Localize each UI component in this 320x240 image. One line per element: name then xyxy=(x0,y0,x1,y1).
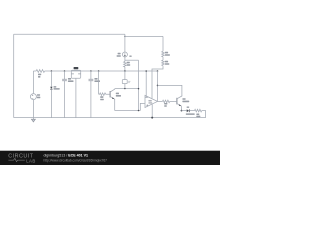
wire Q1 emitter down xyxy=(114,99,116,110)
wire divider jog to op-amp V+ pin xyxy=(152,67,163,98)
wire jog to op-amp non-inverting input (pin +) xyxy=(140,103,145,110)
transistor Q3 xyxy=(175,95,189,106)
svg-text:digimburg513 / ECE 401 V1: digimburg513 / ECE 401 V1 xyxy=(44,153,89,157)
resistor R3 xyxy=(124,57,131,71)
capacitor C2 xyxy=(89,71,101,118)
wire top corner down xyxy=(124,34,126,52)
voltage source V1 xyxy=(30,71,40,118)
diode D1 xyxy=(50,71,60,118)
current source I1 xyxy=(117,52,132,57)
wire bottom rail xyxy=(14,117,206,119)
diode D2 xyxy=(182,107,195,115)
node main/D1 xyxy=(51,70,53,72)
node main/C2 xyxy=(90,70,92,72)
node emitter/diode xyxy=(181,110,183,112)
resistor R6 xyxy=(162,36,170,57)
resistor R5 xyxy=(195,109,206,117)
op-amp OA1 xyxy=(145,95,158,107)
resistor R4 xyxy=(163,100,175,107)
wire Q1 collector xyxy=(115,88,139,90)
node main/R2 branch xyxy=(98,70,100,72)
resistor R1 xyxy=(33,70,51,78)
wire tee from I1/R3 node toward inverting network xyxy=(125,59,139,61)
capacitor C1 xyxy=(62,71,73,118)
wire opamp out xyxy=(158,100,163,102)
node emitter junction xyxy=(138,110,140,112)
wire top rail xyxy=(14,33,125,35)
svg-text:LAB: LAB xyxy=(26,158,36,163)
wire Q3 emitter down xyxy=(181,107,183,111)
wire top right xyxy=(125,35,163,37)
wire feedback to collector xyxy=(158,85,182,95)
transistor Q1 xyxy=(110,89,121,100)
ground xyxy=(31,118,35,122)
svg-text:http://www.circuitlab.com/circ: http://www.circuitlab.com/circuit/26hmqk… xyxy=(44,159,108,163)
node collector junction xyxy=(138,88,140,90)
resistor R7 xyxy=(162,57,170,67)
node top supply junction xyxy=(124,36,126,38)
resistor R2 xyxy=(99,71,110,100)
wire output riser xyxy=(157,71,159,101)
node main/C1 xyxy=(64,70,66,72)
wire left border xyxy=(13,34,15,117)
wire main horizontal xyxy=(51,70,157,72)
wire emitter horizontal xyxy=(115,110,141,112)
wire to op-amp inverting input (pin -) xyxy=(145,71,146,97)
wire vertical x=138.5 xyxy=(138,60,140,110)
footer bar xyxy=(0,151,220,165)
node main/R3 xyxy=(124,70,126,72)
switch S1 (boxed component on main net with actuator label) xyxy=(71,67,80,118)
wire op-amp V- pin to ground rail xyxy=(151,104,153,117)
net flag/probe box on node at x=124.9 xyxy=(122,71,130,89)
node output riser xyxy=(157,70,159,72)
